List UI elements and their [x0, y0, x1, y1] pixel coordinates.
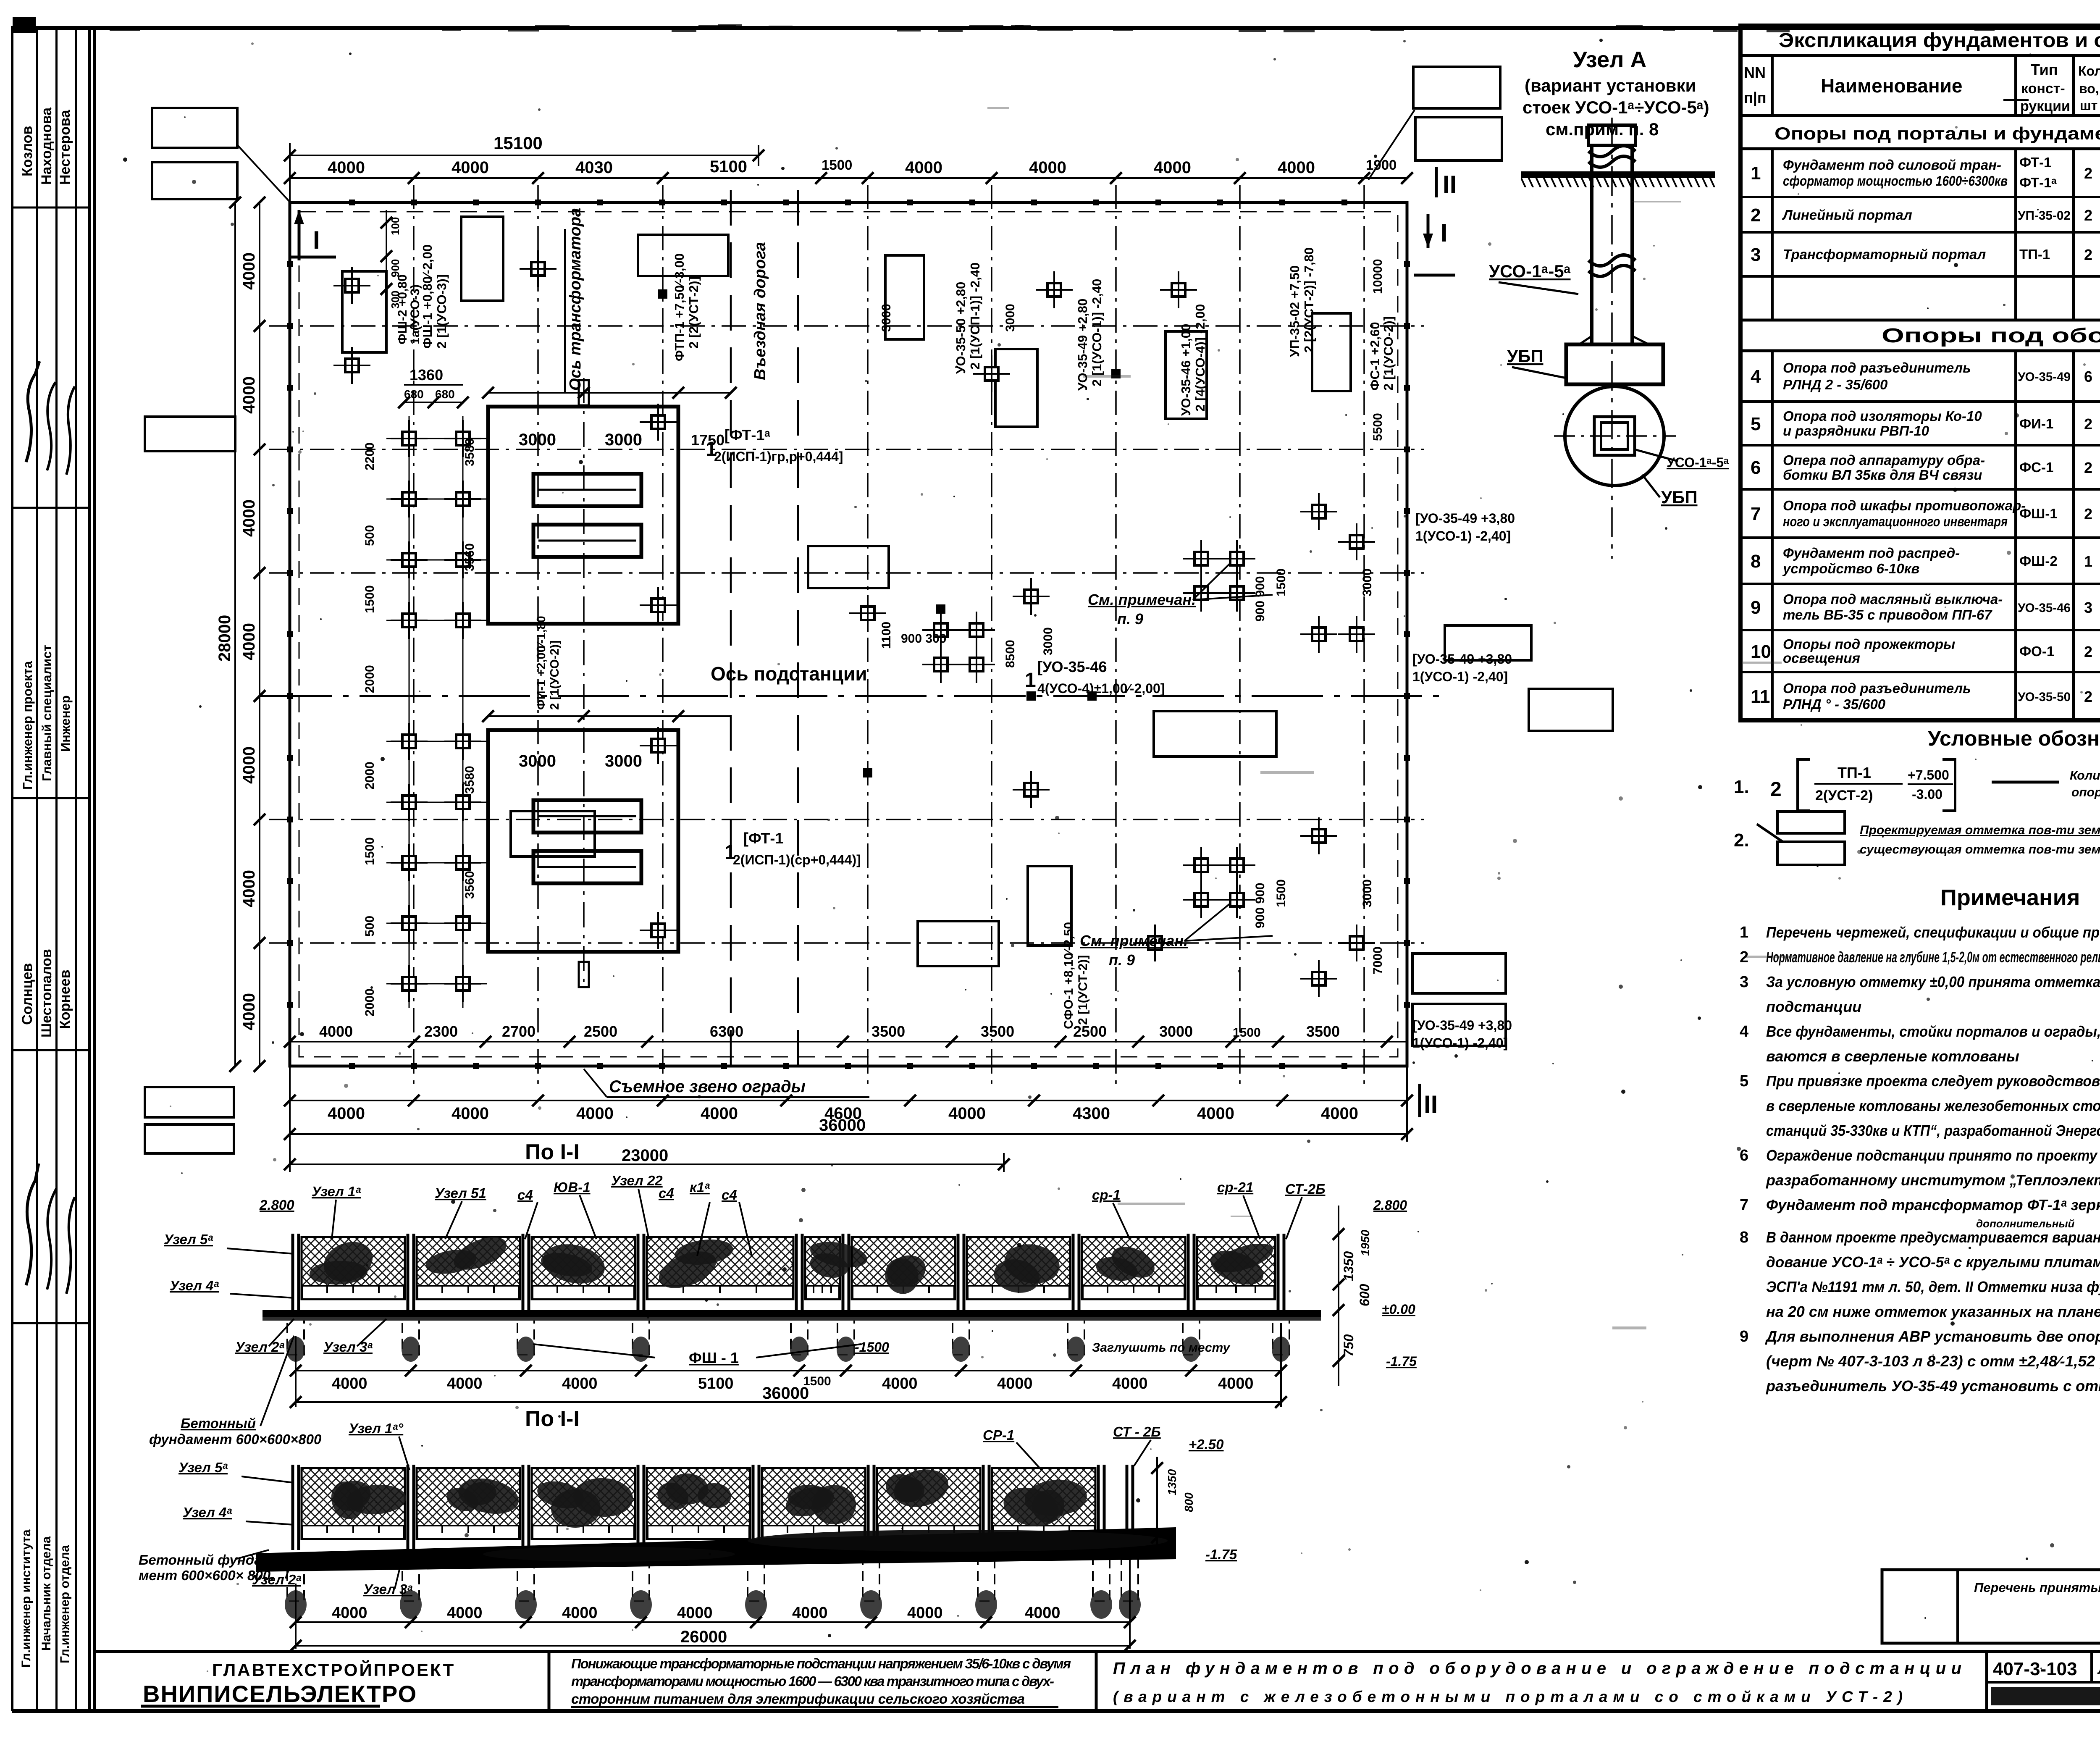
svg-text:Начальник отдела: Начальник отдела — [39, 1536, 53, 1651]
svg-text:±0.00: ±0.00 — [1382, 1302, 1415, 1317]
svg-text:4000: 4000 — [240, 870, 258, 907]
svg-text:[УО-35-49 +3,80: [УО-35-49 +3,80 — [1412, 1018, 1512, 1033]
svg-text:2 [1(УСО-2)]: 2 [1(УСО-2)] — [1381, 316, 1396, 391]
svg-text:1: 1 — [706, 438, 717, 460]
svg-text:Узел А: Узел А — [1573, 47, 1646, 72]
svg-text:7: 7 — [1751, 504, 1761, 524]
svg-text:1950: 1950 — [1359, 1229, 1372, 1256]
svg-text:3560: 3560 — [463, 543, 477, 571]
svg-text:8500: 8500 — [1003, 640, 1017, 668]
svg-text:680: 680 — [404, 388, 424, 401]
svg-text:станций 35-330кв и КТП“, ра: станций 35-330кв и КТП“, разработанной Э… — [1766, 1122, 2100, 1139]
svg-text:6300: 6300 — [710, 1023, 743, 1040]
svg-text:на 20 см ниже отметок: на 20 см ниже отметок указанных на плане… — [1766, 1303, 2100, 1320]
svg-text:1: 1 — [1751, 163, 1761, 184]
svg-text:9: 9 — [1740, 1328, 1748, 1345]
svg-text:4000: 4000 — [319, 1023, 353, 1040]
svg-text:4000: 4000 — [562, 1375, 598, 1392]
svg-text:6: 6 — [1740, 1147, 1748, 1164]
svg-text:устройство 6-10кв: устройство 6-10кв — [1782, 561, 1919, 576]
svg-text:4: 4 — [1740, 1023, 1748, 1040]
svg-text:СТ - 2Б: СТ - 2Б — [1113, 1424, 1161, 1439]
svg-text:4000: 4000 — [1278, 158, 1315, 177]
svg-text:Кол-: Кол- — [2078, 63, 2100, 79]
svg-text:лист5-02: лист5-02 — [2097, 1660, 2100, 1677]
svg-text:900 300: 900 300 — [901, 632, 946, 646]
svg-text:УСО-1ᵃ-5ᵃ: УСО-1ᵃ-5ᵃ — [1489, 261, 1571, 281]
svg-text:2(ИСП-1)(ср+0,444)]: 2(ИСП-1)(ср+0,444)] — [733, 852, 861, 867]
svg-text:4000: 4000 — [882, 1375, 918, 1392]
svg-text:1500: 1500 — [1274, 568, 1288, 596]
svg-text:Корнеев: Корнеев — [57, 969, 73, 1029]
svg-text:1500: 1500 — [1274, 879, 1288, 907]
svg-text:2 [4(УСО-4)] -2,00: 2 [4(УСО-4)] -2,00 — [1193, 304, 1207, 412]
svg-text:4000: 4000 — [240, 376, 258, 414]
svg-text:с4: с4 — [659, 1185, 674, 1201]
svg-text:-1.75: -1.75 — [1386, 1354, 1417, 1369]
svg-text:Тип: Тип — [2031, 61, 2058, 78]
svg-text:2: 2 — [2084, 246, 2092, 263]
svg-text:500: 500 — [363, 916, 377, 937]
svg-text:(вариант установки: (вариант установки — [1525, 76, 1696, 95]
svg-text:100: 100 — [389, 217, 402, 235]
svg-text:5: 5 — [1740, 1072, 1748, 1090]
svg-text:Узел 3ᵃ: Узел 3ᵃ — [323, 1339, 373, 1355]
svg-text:УСО-1ᵃ-5ᵃ: УСО-1ᵃ-5ᵃ — [1667, 455, 1729, 470]
svg-text:3: 3 — [2084, 599, 2092, 616]
svg-text:ФТ-1ᵃ: ФТ-1ᵃ — [2019, 175, 2057, 190]
svg-text:Бетонный: Бетонный — [181, 1416, 256, 1431]
svg-text:2(ИСП-1)гр,р+0,444]: 2(ИСП-1)гр,р+0,444] — [714, 449, 843, 464]
svg-text:УО-35-50: УО-35-50 — [2018, 690, 2071, 704]
svg-text:3500: 3500 — [871, 1023, 905, 1040]
svg-text:Фундамент под трансформатор: Фундамент под трансформатор ФТ-1ᵃ зеркал… — [1766, 1196, 2100, 1213]
svg-text:УП-35-02: УП-35-02 — [2018, 209, 2071, 223]
svg-text:4000: 4000 — [328, 1104, 365, 1123]
svg-text:подстанции: подстанции — [1766, 998, 1861, 1015]
svg-text:Гл.инженер проекта: Гл.инженер проекта — [20, 661, 35, 790]
svg-text:в сверленые котлованы желез: в сверленые котлованы железобетонных сто… — [1766, 1097, 2100, 1114]
svg-text:разработанному институтом „Те: разработанному институтом „Теплоэлектроп… — [1766, 1171, 2100, 1189]
svg-text:6: 6 — [1751, 457, 1761, 478]
svg-text:5: 5 — [1751, 414, 1761, 434]
svg-text:См. примечан.: См. примечан. — [1088, 591, 1196, 608]
svg-text:9: 9 — [1751, 597, 1761, 618]
svg-text:ГЛАВТЕХСТРОЙПРОЕКТ: ГЛАВТЕХСТРОЙПРОЕКТ — [212, 1660, 455, 1680]
svg-text:2.800: 2.800 — [1373, 1198, 1407, 1213]
svg-text:Бетонный фунда: Бетонный фунда — [139, 1552, 262, 1568]
svg-text:1: 1 — [1025, 669, 1036, 691]
svg-text:2: 2 — [2084, 415, 2092, 433]
svg-text:3500: 3500 — [981, 1023, 1014, 1040]
svg-text:Узел 5ᵃ: Узел 5ᵃ — [164, 1232, 213, 1247]
svg-text:4000: 4000 — [948, 1104, 986, 1123]
svg-text:опор: опор — [2071, 785, 2100, 799]
svg-text:4000: 4000 — [447, 1375, 483, 1392]
svg-text:3000: 3000 — [605, 431, 642, 449]
svg-text:Съемное звено ограды: Съемное звено ограды — [609, 1077, 806, 1096]
svg-text:11: 11 — [1751, 686, 1770, 707]
svg-text:ботки ВЛ 35кв для ВЧ связи: ботки ВЛ 35кв для ВЧ связи — [1783, 467, 1982, 483]
svg-text:2: 2 — [2084, 643, 2092, 660]
svg-text:ВНИПИСЕЛЬЭЛЕКТРО: ВНИПИСЕЛЬЭЛЕКТРО — [143, 1681, 417, 1707]
svg-text:2 [2(УСТ-2)]: 2 [2(УСТ-2)] — [686, 276, 701, 349]
svg-text:10: 10 — [1751, 641, 1771, 662]
svg-text:2 [1(УСТ-2)]: 2 [1(УСТ-2)] — [1076, 955, 1090, 1025]
svg-text:2.800: 2.800 — [259, 1197, 294, 1213]
svg-text:Главный специалист: Главный специалист — [39, 645, 54, 781]
svg-text:2000: 2000 — [363, 762, 377, 790]
svg-text:6: 6 — [2084, 368, 2092, 385]
svg-text:3000: 3000 — [879, 304, 893, 332]
svg-text:УО-35-50 +2,80: УО-35-50 +2,80 — [953, 282, 968, 374]
svg-text:ТП-1: ТП-1 — [1837, 764, 1871, 781]
svg-text:4000: 4000 — [997, 1375, 1033, 1392]
svg-text:СФО-1 +8,10∕-2,50: СФО-1 +8,10∕-2,50 — [1062, 922, 1076, 1029]
svg-text:с4: с4 — [722, 1187, 737, 1203]
svg-text:Опера под аппаратуру обра-: Опера под аппаратуру обра- — [1783, 452, 1985, 468]
svg-text:[УО-35-46: [УО-35-46 — [1037, 658, 1107, 675]
svg-text:п|п: п|п — [1744, 89, 1767, 107]
svg-text:СТ-2Б: СТ-2Б — [1285, 1181, 1325, 1197]
svg-text:УП-35-02 +7,50: УП-35-02 +7,50 — [1287, 265, 1302, 357]
svg-text:3000: 3000 — [1360, 879, 1374, 907]
svg-text:См. примечан.: См. примечан. — [1080, 932, 1188, 949]
svg-text:Опора под разъединитель: Опора под разъединитель — [1783, 360, 1971, 376]
svg-text:Опора под шкафы противопожар-: Опора под шкафы противопожар- — [1783, 498, 2026, 513]
svg-text:Линейный портал: Линейный портал — [1782, 207, 1912, 223]
svg-text:Узел 4ᵃ: Узел 4ᵃ — [183, 1505, 232, 1520]
svg-text:ср-1: ср-1 — [1092, 1187, 1121, 1203]
svg-text:существующая отметка пов-ти: существующая отметка пов-ти земли — [1860, 843, 2100, 856]
svg-text:сформатор мощностью 1600÷6300: сформатор мощностью 1600÷6300кв — [1783, 173, 2008, 189]
svg-text:800: 800 — [1182, 1492, 1195, 1512]
svg-text:Опоры под оборудование: Опоры под оборудование — [1882, 325, 2100, 347]
svg-text:конст-: конст- — [2021, 81, 2065, 97]
svg-text:4000: 4000 — [701, 1104, 738, 1123]
svg-text:Проектируемая отметка пов-: Проектируемая отметка пов-ти земли — [1860, 823, 2100, 837]
svg-text:4000: 4000 — [1029, 158, 1066, 177]
svg-text:10000: 10000 — [1371, 259, 1385, 294]
svg-text:(вариант с железобетонными: (вариант с железобетонными порталами со … — [1113, 1688, 1903, 1705]
svg-text:4000: 4000 — [240, 252, 258, 290]
svg-text:4000: 4000 — [792, 1604, 828, 1622]
svg-text:28000: 28000 — [215, 615, 234, 662]
svg-text:Находнова: Находнова — [39, 107, 55, 185]
svg-text:Гл.инженер отдела: Гл.инженер отдела — [58, 1545, 72, 1663]
svg-text:4000: 4000 — [562, 1604, 598, 1622]
svg-text:3000: 3000 — [519, 752, 556, 770]
svg-text:3580: 3580 — [463, 438, 477, 466]
svg-text:ФС-1: ФС-1 — [2019, 460, 2053, 475]
svg-text:СР-1: СР-1 — [983, 1427, 1014, 1443]
svg-text:Узел 1ᵃ: Узел 1ᵃ — [312, 1184, 361, 1199]
svg-text:мент 600×600× 800.: мент 600×600× 800. — [139, 1568, 274, 1583]
svg-text:1а(УСО-3): 1а(УСО-3) — [408, 284, 422, 344]
svg-text:5500: 5500 — [1371, 413, 1385, 441]
svg-text:4300: 4300 — [1073, 1104, 1110, 1123]
svg-text:[ФТ-1: [ФТ-1 — [743, 830, 783, 847]
svg-text:сторонним питанием для элек: сторонним питанием для электрификации се… — [571, 1691, 1025, 1707]
svg-text:2700: 2700 — [502, 1023, 535, 1040]
svg-text:15100: 15100 — [493, 133, 543, 153]
svg-text:2500: 2500 — [1073, 1023, 1107, 1040]
svg-text:дование УСО-1ᵃ ÷ УСО-5ᵃ с к: дование УСО-1ᵃ ÷ УСО-5ᵃ с круглыми плита… — [1766, 1253, 2100, 1271]
svg-text:4000: 4000 — [1197, 1104, 1234, 1123]
svg-text:2 [1(УСП-1)] -2,40: 2 [1(УСП-1)] -2,40 — [968, 263, 982, 370]
svg-text:УБП: УБП — [1507, 346, 1543, 366]
svg-text:УО-35-49: УО-35-49 — [2018, 370, 2071, 384]
svg-text:4030: 4030 — [575, 158, 613, 177]
svg-text:4000: 4000 — [328, 158, 365, 177]
svg-text:Узел 2ᵃ: Узел 2ᵃ — [235, 1339, 284, 1355]
svg-text:1350: 1350 — [1165, 1469, 1179, 1495]
svg-text:5100: 5100 — [698, 1375, 734, 1392]
svg-text:Козлов: Козлов — [19, 126, 35, 176]
svg-text:I: I — [1441, 219, 1448, 247]
svg-text:При привязке проекта следу: При привязке проекта следует руководство… — [1766, 1072, 2100, 1090]
svg-text:ЮВ-1: ЮВ-1 — [554, 1179, 591, 1195]
svg-text:1500: 1500 — [1233, 1026, 1261, 1040]
svg-text:ФШ-1 +0,80∕-2,00: ФШ-1 +0,80∕-2,00 — [420, 244, 435, 349]
svg-text:8: 8 — [1740, 1229, 1748, 1246]
svg-text:Инженер: Инженер — [58, 695, 73, 752]
svg-text:По I-I: По I-I — [525, 1140, 580, 1164]
svg-text:ваются в сверленые котлова: ваются в сверленые котлованы — [1766, 1048, 2019, 1065]
svg-text:36000: 36000 — [762, 1384, 809, 1403]
svg-text:3: 3 — [1740, 973, 1748, 991]
svg-text:Опоры под прожекторы: Опоры под прожекторы — [1783, 636, 1955, 652]
svg-text:2: 2 — [2084, 165, 2092, 182]
svg-text:4000: 4000 — [447, 1604, 483, 1622]
svg-text:освещения: освещения — [1783, 650, 1860, 666]
svg-text:2 [2(УСТ-2)] -7,80: 2 [2(УСТ-2)] -7,80 — [1302, 247, 1316, 353]
svg-text:4000: 4000 — [1154, 158, 1191, 177]
svg-text:стоек УСО-1ᵃ÷УСО-5ᵃ): стоек УСО-1ᵃ÷УСО-5ᵃ) — [1522, 97, 1709, 117]
svg-text:750: 750 — [1341, 1334, 1356, 1357]
svg-text:Перечень принятых в проекте: Перечень принятых в проекте — [1974, 1580, 2100, 1595]
svg-text:3560: 3560 — [463, 871, 477, 899]
svg-text:1: 1 — [2084, 553, 2092, 570]
svg-text:Опоры под порталы и фундам: Опоры под порталы и фундаменты под транс… — [1774, 123, 2100, 143]
svg-text:4000: 4000 — [907, 1604, 943, 1622]
svg-text:900 900: 900 900 — [1253, 576, 1267, 622]
svg-text:[УО-35-49 +3,80: [УО-35-49 +3,80 — [1415, 511, 1515, 526]
svg-text:-3.00: -3.00 — [1912, 787, 1942, 802]
svg-text:26000: 26000 — [680, 1628, 727, 1646]
svg-text:680: 680 — [435, 388, 455, 401]
svg-text:к1ᵃ: к1ᵃ — [690, 1179, 710, 1195]
svg-text:4000: 4000 — [1218, 1375, 1254, 1392]
svg-text:3580: 3580 — [463, 766, 477, 794]
svg-text:Узел 5ᵃ: Узел 5ᵃ — [178, 1460, 228, 1475]
svg-text:ср-21: ср-21 — [1217, 1179, 1253, 1195]
svg-text:2200: 2200 — [363, 442, 377, 470]
svg-text:900 900: 900 900 — [1253, 883, 1267, 928]
svg-text:407-3-103: 407-3-103 — [1993, 1659, 2077, 1679]
svg-text:1: 1 — [1740, 924, 1748, 941]
svg-text:ЭСП'а №1191 тм л. 50, дет.: ЭСП'а №1191 тм л. 50, дет. II Отметки ни… — [1766, 1278, 2100, 1295]
svg-text:5100: 5100 — [710, 158, 747, 176]
svg-text:УО-35-46 +1,00: УО-35-46 +1,00 — [1179, 324, 1193, 416]
svg-text:УБП: УБП — [1661, 487, 1698, 507]
svg-text:4000: 4000 — [451, 1104, 489, 1123]
svg-text:План фундаментов под оборуд: План фундаментов под оборудование и огра… — [1113, 1659, 1961, 1678]
svg-text:Узел 51: Узел 51 — [435, 1185, 486, 1201]
svg-text:Шестопалов: Шестопалов — [39, 949, 55, 1037]
svg-text:ФШ-2: ФШ-2 — [2019, 553, 2058, 569]
svg-text:4(УСО-4)±1,00∕-2,00]: 4(УСО-4)±1,00∕-2,00] — [1037, 681, 1165, 696]
svg-text:Нестерова: Нестерова — [57, 110, 73, 185]
svg-text:ФС-1 +2,60: ФС-1 +2,60 — [1368, 322, 1382, 391]
svg-text:Трансформаторный портал: Трансформаторный портал — [1783, 247, 1986, 262]
svg-text:см.прим. п. 8: см.прим. п. 8 — [1546, 119, 1659, 139]
svg-text:во,: во, — [2079, 81, 2099, 96]
svg-text:ФО-1: ФО-1 — [2019, 643, 2054, 659]
svg-text:4000: 4000 — [240, 499, 258, 537]
svg-text:500: 500 — [363, 525, 377, 546]
svg-text:2500: 2500 — [584, 1023, 617, 1040]
svg-text:Перечень чертежей, спецификац: Перечень чертежей, спецификации и общие … — [1766, 924, 2100, 941]
svg-text:Узел 4ᵃ: Узел 4ᵃ — [170, 1278, 219, 1293]
svg-text:NN: NN — [1744, 64, 1766, 81]
svg-text:1: 1 — [724, 841, 736, 864]
svg-text:ФИ-1 +2,00∕-1,80: ФИ-1 +2,00∕-1,80 — [535, 616, 548, 710]
svg-text:Колич: Колич — [2070, 769, 2100, 783]
svg-text:4000: 4000 — [332, 1375, 367, 1392]
svg-text:I: I — [313, 226, 320, 254]
svg-text:[ФТ-1ᵃ: [ФТ-1ᵃ — [724, 426, 770, 444]
svg-text:ФТ-1: ФТ-1 — [2019, 155, 2051, 170]
svg-text:Условные обозначения: Условные обозначения — [1928, 727, 2100, 750]
svg-text:ФИ-1: ФИ-1 — [2019, 416, 2053, 431]
svg-text:3500: 3500 — [1306, 1023, 1340, 1040]
svg-text:-1.75: -1.75 — [1205, 1547, 1237, 1562]
svg-text:Ось подстанции: Ось подстанции — [711, 663, 867, 685]
svg-text:В данном проекте предусматр: В данном проекте предусматривается вариа… — [1766, 1229, 2100, 1246]
svg-text:За условную отметку ±0,00: За условную отметку ±0,00 принята отметк… — [1766, 973, 2100, 990]
svg-text:фундамент 600×600×800: фундамент 600×600×800 — [149, 1431, 322, 1447]
svg-text:ного и эксплуатационного инвен: ного и эксплуатационного инвентаря — [1783, 514, 2008, 529]
svg-text:Узел 22: Узел 22 — [611, 1173, 663, 1188]
svg-text:РЛНД 2 - 35/600: РЛНД 2 - 35/600 — [1783, 377, 1888, 392]
svg-text:1(УСО-1) -2,40]: 1(УСО-1) -2,40] — [1412, 1035, 1508, 1051]
svg-text:1350: 1350 — [1341, 1251, 1356, 1281]
svg-text:Опора под разъединитель: Опора под разъединитель — [1783, 680, 1971, 696]
svg-text:ФШ-1: ФШ-1 — [2019, 506, 2058, 521]
svg-text:Понижающие трансформаторные: Понижающие трансформаторные подстанции н… — [571, 1656, 1071, 1671]
svg-text:2.: 2. — [1734, 830, 1749, 851]
svg-text:1(УСО-1) -2,40]: 1(УСО-1) -2,40] — [1415, 528, 1511, 544]
svg-text:По I-I: По I-I — [525, 1407, 580, 1431]
svg-text:тель ВБ-35 с приводом ПП-67: тель ВБ-35 с приводом ПП-67 — [1783, 607, 1992, 622]
svg-text:1500: 1500 — [363, 837, 377, 865]
svg-text:36000: 36000 — [819, 1116, 866, 1135]
svg-text:4000: 4000 — [451, 158, 489, 177]
svg-text:3000: 3000 — [1041, 627, 1055, 655]
svg-text:Экспликация фундаментов и о: Экспликация фундаментов и опор под обору… — [1779, 29, 2100, 52]
svg-text:ФШ-2 +0,80: ФШ-2 +0,80 — [396, 274, 409, 344]
svg-text:Узел 3ᵃ: Узел 3ᵃ — [363, 1581, 412, 1597]
svg-text:Ось трансформатора: Ось трансформатора — [567, 208, 584, 391]
svg-text:шт: шт — [2080, 98, 2097, 113]
svg-text:1500: 1500 — [363, 585, 377, 613]
svg-text:+7.500: +7.500 — [1908, 767, 1949, 783]
svg-text:РЛНД ° - 35/600: РЛНД ° - 35/600 — [1783, 696, 1886, 712]
svg-text:п. 9: п. 9 — [1117, 610, 1143, 628]
svg-text:Узел 1ᵃ°: Узел 1ᵃ° — [349, 1421, 404, 1436]
svg-text:3000: 3000 — [1360, 568, 1374, 596]
svg-text:2: 2 — [2084, 207, 2092, 224]
svg-text:+2.50: +2.50 — [1189, 1437, 1224, 1452]
svg-text:3000: 3000 — [1159, 1023, 1193, 1040]
svg-text:4000: 4000 — [240, 746, 258, 784]
svg-text:II: II — [1424, 1090, 1438, 1119]
svg-text:ФТП-1 +7,50∕-3,00: ФТП-1 +7,50∕-3,00 — [672, 253, 687, 361]
svg-text:1100: 1100 — [879, 622, 893, 649]
svg-text:1500: 1500 — [822, 157, 852, 173]
svg-text:2000: 2000 — [363, 988, 377, 1016]
svg-text:Все фундаменты, стойки порта: Все фундаменты, стойки порталов и ограды… — [1766, 1023, 2100, 1040]
svg-text:3000: 3000 — [519, 431, 556, 449]
svg-text:4000: 4000 — [1112, 1375, 1148, 1392]
svg-text:600: 600 — [1357, 1284, 1372, 1306]
svg-text:и разрядники РВП-10: и разрядники РВП-10 — [1783, 423, 1929, 439]
svg-text:УО-35-46: УО-35-46 — [2018, 601, 2071, 615]
svg-text:4000: 4000 — [240, 623, 258, 660]
svg-text:с4: с4 — [517, 1187, 533, 1203]
svg-text:2: 2 — [2084, 459, 2092, 476]
svg-text:Ограждение подстанции принят: Ограждение подстанции принято по проекту… — [1766, 1147, 2100, 1164]
svg-text:Опора под изоляторы Ко-10: Опора под изоляторы Ко-10 — [1783, 408, 1982, 424]
svg-text:4000: 4000 — [332, 1604, 367, 1622]
svg-text:2(УСТ-2): 2(УСТ-2) — [1815, 788, 1873, 804]
svg-text:Заглушить по месту: Заглушить по месту — [1092, 1341, 1231, 1355]
svg-text:Въездная дорога: Въездная дорога — [751, 242, 769, 380]
svg-text:дополнительный: дополнительный — [1976, 1217, 2075, 1230]
svg-text:1(УСО-1) -2,40]: 1(УСО-1) -2,40] — [1412, 669, 1508, 684]
svg-text:1360: 1360 — [409, 366, 443, 383]
svg-text:4000: 4000 — [1025, 1604, 1060, 1622]
svg-text:-1500: -1500 — [855, 1340, 889, 1355]
svg-text:Солнцев: Солнцев — [19, 963, 35, 1025]
svg-text:7: 7 — [1740, 1196, 1748, 1214]
svg-text:2 [1(УСО-1)] -2,40: 2 [1(УСО-1)] -2,40 — [1089, 279, 1104, 386]
svg-text:рукции: рукции — [2020, 98, 2070, 114]
svg-text:Фундамент под распред-: Фундамент под распред- — [1783, 545, 1960, 561]
svg-text:4000: 4000 — [677, 1604, 713, 1622]
svg-text:II: II — [1443, 171, 1457, 199]
svg-text:4000: 4000 — [240, 993, 258, 1030]
svg-text:Опора под масляный выключа-: Опора под масляный выключа- — [1783, 591, 2003, 607]
svg-text:23000: 23000 — [622, 1146, 668, 1165]
svg-text:Нормативное давление на глу: Нормативное давление на глубине 1,5-2,0м… — [1766, 948, 2100, 966]
svg-text:п. 9: п. 9 — [1109, 951, 1135, 969]
svg-text:7000: 7000 — [1371, 946, 1385, 974]
svg-text:Примечания: Примечания — [1940, 885, 2080, 910]
svg-text:Гл.инженер института: Гл.инженер института — [19, 1529, 33, 1668]
svg-text:Фундамент под силовой тран-: Фундамент под силовой тран- — [1783, 157, 2001, 173]
svg-text:разъединитель УО-35-49 ус: разъединитель УО-35-49 установить с отм.… — [1766, 1377, 2100, 1395]
svg-text:2: 2 — [1751, 205, 1761, 226]
svg-text:8: 8 — [1751, 551, 1761, 572]
svg-text:2: 2 — [1770, 778, 1782, 801]
svg-text:ТП-1: ТП-1 — [2019, 247, 2050, 262]
svg-text:4000: 4000 — [576, 1104, 614, 1123]
svg-text:2000: 2000 — [363, 665, 377, 693]
svg-text:4: 4 — [1751, 366, 1761, 387]
svg-text:Наименование: Наименование — [1821, 75, 1962, 97]
